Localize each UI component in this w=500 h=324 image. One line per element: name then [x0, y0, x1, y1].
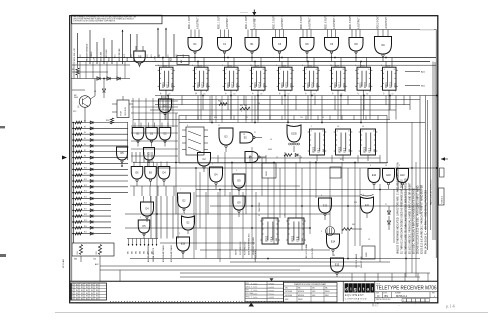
svg-text:5: 5	[143, 198, 144, 200]
svg-text:8B: 8B	[71, 290, 73, 292]
svg-text:NOTE:: NOTE:	[236, 248, 238, 255]
bus wire B-line y57	[77, 57, 436, 59]
svg-text:D664: D664	[312, 291, 316, 293]
arrow left at right border	[441, 157, 448, 160]
nand gate E3 center	[219, 128, 233, 152]
flip-flop R202 lower right	[286, 218, 306, 244]
nand gate E10 upper-right row	[368, 169, 380, 190]
wire vertical x285 long	[284, 152, 286, 218]
nand gate E6 tier3	[145, 162, 157, 187]
svg-text:8B: 8B	[71, 287, 73, 289]
wire top signal ATD LINE	[100, 38, 104, 64]
svg-text:W040: W040	[266, 171, 268, 176]
faint print-through top right	[240, 12, 434, 30]
enclosure internal wire drops	[186, 116, 380, 163]
svg-text:R201 8 OUT: R201 8 OUT	[378, 15, 380, 28]
svg-text:8B: 8B	[76, 293, 78, 295]
svg-text:R201 6 OUT: R201 6 OUT	[301, 16, 303, 29]
wire second left horizontal y72	[72, 71, 108, 73]
wire top signal LTB	[163, 28, 167, 62]
svg-text:JAM: JAM	[348, 148, 351, 152]
svg-text:T. Gallo: T. Gallo	[251, 294, 257, 296]
svg-text:E18: E18	[386, 174, 391, 177]
nand gate E5b horizontal lower	[245, 152, 266, 163]
transistor Q1	[74, 95, 91, 108]
svg-text:11: 11	[254, 132, 256, 134]
svg-text:8B: 8B	[71, 296, 73, 298]
wire top signal B43	[134, 34, 137, 61]
scan mark top center registration arrow	[252, 10, 256, 22]
svg-text:R3: R3	[84, 126, 86, 128]
svg-text:680: 680	[352, 224, 355, 226]
svg-text:13: 13	[169, 93, 171, 95]
svg-text:R13: R13	[84, 185, 87, 187]
svg-text:JAM: JAM	[235, 84, 238, 88]
svg-text:MPS6534: MPS6534	[298, 295, 304, 297]
flip-flop R202 lower left	[260, 218, 280, 244]
svg-text:2: 2	[241, 111, 242, 113]
svg-text:B01 I/O CLEAR: B01 I/O CLEAR	[305, 243, 308, 258]
nand gate C5 top row	[273, 15, 287, 62]
pulse transformer T1	[326, 227, 335, 236]
svg-text:8B: 8B	[91, 287, 93, 289]
flip-flop R201 bit 9	[381, 58, 398, 96]
svg-text:A OUTPUT 1: A OUTPUT 1	[281, 15, 284, 29]
small box A03 above flip-flop row	[177, 56, 189, 65]
label ALL READ BUFFER SERIAL INPUTS	[147, 244, 155, 262]
signature block drn chk eng	[245, 281, 284, 302]
svg-text:9: 9	[263, 91, 264, 93]
svg-text:R201: R201	[199, 65, 203, 67]
svg-text:MULTI: MULTI	[366, 252, 368, 257]
wire drops below flip-flop row bottom area	[132, 152, 256, 259]
svg-text:A02: A02	[95, 263, 98, 266]
svg-text:9: 9	[252, 93, 253, 95]
svg-text:2-6-68: 2-6-68	[270, 297, 275, 299]
ladder right rail wire	[127, 123, 129, 161]
nand gate D2 mid-left row1	[159, 123, 171, 147]
nand gate B1 mid-left row1	[132, 123, 144, 147]
svg-text:750: 750	[300, 117, 303, 119]
transistor area wiring	[72, 79, 96, 123]
svg-text:R201 5 OUT: R201 5 OUT	[274, 16, 276, 29]
ladder rung 2 resistor-diode	[72, 126, 128, 129]
label TELETYPE rotated	[259, 202, 261, 212]
rotated label LO CLOCK	[312, 247, 314, 258]
ladder rung 16 resistor-diode	[72, 208, 111, 211]
flip-flop R202 plan2 bit 1	[308, 129, 327, 161]
svg-text:8B: 8B	[81, 284, 83, 286]
wire vertical x355 long	[354, 163, 356, 247]
nand gate E4	[210, 167, 223, 189]
svg-text:10: 10	[270, 139, 272, 141]
svg-text:IN645: IN645	[325, 295, 329, 297]
svg-text:JAM: JAM	[289, 84, 292, 88]
svg-text:A OUTPUT 1: A OUTPUT 1	[333, 15, 336, 29]
svg-text:l: l	[372, 286, 373, 291]
resistor R20 with diode	[284, 154, 298, 157]
wire top signal B00	[127, 34, 130, 61]
svg-text:B05: B05	[144, 251, 146, 254]
svg-text:9: 9	[179, 233, 180, 235]
svg-text:B04: B04	[140, 251, 142, 254]
svg-text:R201 6 OUT: R201 6 OUT	[326, 16, 328, 29]
svg-text:14: 14	[330, 65, 332, 67]
scan paper bottom edge shadow	[55, 312, 488, 314]
rotated label I O CLEAR	[305, 243, 308, 258]
svg-text:11: 11	[218, 125, 220, 127]
svg-text:MC 50: MC 50	[70, 303, 75, 305]
svg-text:13: 13	[261, 93, 263, 95]
ladder rung 19 resistor-diode	[72, 226, 111, 229]
svg-text:8B: 8B	[86, 293, 88, 295]
svg-text:8B: 8B	[76, 284, 78, 286]
svg-text:R14: R14	[84, 191, 87, 193]
svg-text:D5,D4,E7,E12,E16 & E15 ARE DEC: D5,D4,E7,E12,E16 & E15 ARE DEC 7400N QUA…	[417, 185, 420, 254]
svg-text:g: g	[354, 286, 357, 291]
svg-text:T. Gallo: T. Gallo	[251, 290, 257, 292]
svg-text:E2,E9,E13 & E14 ARE DEC 7440N: E2,E9,E13 & E14 ARE DEC 7440N DUAL 4-INP…	[421, 184, 424, 254]
ladder rung 18 resistor-diode	[72, 220, 111, 223]
svg-text:R201: R201	[387, 65, 391, 67]
svg-text:2: 2	[332, 93, 333, 95]
wire top signal +3V	[94, 42, 97, 64]
svg-text:R23: R23	[354, 202, 357, 204]
nand gate E2 tall	[178, 193, 191, 213]
junction dots on buses	[103, 57, 438, 260]
svg-text:R20: R20	[84, 226, 87, 228]
svg-text:E10: E10	[372, 174, 377, 177]
svg-text:R201 1 OUT: R201 1 OUT	[246, 16, 248, 29]
wire horizontal y214	[125, 213, 330, 215]
svg-text:8B: 8B	[81, 293, 83, 295]
wire top signal B02	[109, 40, 112, 64]
component box small upper	[262, 163, 276, 178]
svg-text:R19: R19	[214, 117, 217, 119]
svg-text:8B: 8B	[86, 284, 88, 286]
label below parts table	[70, 303, 75, 305]
wire top signal A03	[170, 34, 174, 61]
svg-text:R201: R201	[283, 65, 287, 67]
svg-text:14: 14	[385, 165, 387, 167]
svg-text:8B: 8B	[96, 299, 98, 301]
nand gate B1 top row	[245, 15, 259, 62]
scan mark left edge upper	[0, 126, 5, 128]
notice box	[72, 15, 163, 24]
svg-text:R12: R12	[84, 179, 87, 181]
svg-text:8B: 8B	[96, 293, 98, 295]
svg-text:2: 2	[395, 91, 396, 93]
svg-text:A OUTPUT 1: A OUTPUT 1	[226, 15, 229, 29]
svg-text:MOL 302 +3V: MOL 302 +3V	[74, 48, 76, 61]
nand gate D4 lower mid	[141, 196, 154, 222]
svg-text:″: ″	[415, 304, 416, 307]
wire top signal +3V3	[155, 28, 159, 62]
svg-text:E105: E105	[291, 133, 297, 135]
svg-text:D664: D664	[268, 149, 272, 151]
ladder rung 1 resistor-diode	[72, 121, 128, 124]
notes column right side	[397, 162, 428, 254]
svg-text:E Q U I P M E N T: E Q U I P M E N T	[345, 295, 364, 297]
svg-text:R201: R201	[361, 65, 365, 67]
nand gate C6 top row	[325, 15, 339, 62]
labels read buffer input column	[128, 251, 154, 254]
ladder rung 11 resistor-diode	[72, 179, 128, 182]
ladder rung 6 resistor-diode	[72, 150, 128, 153]
svg-text:4: 4	[206, 91, 207, 93]
svg-text:7: 7	[383, 93, 384, 95]
svg-text:8B: 8B	[91, 290, 93, 292]
svg-text:B03: B03	[136, 251, 138, 254]
svg-text:6: 6	[158, 65, 159, 67]
svg-text:PROD.: PROD.	[246, 297, 251, 299]
svg-text:1: 1	[363, 194, 364, 196]
svg-text:R10: R10	[84, 167, 87, 169]
bottom left wires to strip	[100, 266, 120, 281]
svg-text:14: 14	[333, 255, 335, 257]
svg-text:DEC3009B: DEC3009B	[285, 291, 292, 293]
wire stub A01 right of flip-flop row	[405, 71, 426, 74]
flip-flop R201 bit 6	[303, 58, 320, 96]
wire horizontal y119	[133, 119, 390, 121]
svg-text:PRINTED CIRCUIT REV.: PRINTED CIRCUIT REV.	[376, 299, 391, 301]
ladder rung 7 resistor-diode	[72, 156, 128, 159]
svg-text:R22: R22	[340, 159, 343, 161]
svg-text:8B: 8B	[76, 290, 78, 292]
svg-text:8B: 8B	[71, 293, 73, 295]
code tab right border	[440, 168, 445, 177]
ladder rung 20 resistor-diode	[72, 232, 111, 235]
svg-text:8B: 8B	[76, 299, 78, 301]
svg-text:C3: C3	[368, 239, 370, 241]
nand gate C2 mid-left row2	[144, 148, 155, 167]
svg-text:T. Gallo: T. Gallo	[251, 283, 257, 285]
svg-text:A OUTPUT 1: A OUTPUT 1	[358, 15, 361, 29]
wire horizontal y273	[180, 272, 430, 274]
nand gate E14 lower	[327, 234, 340, 256]
wire vertical x420 right	[419, 96, 421, 215]
diode D3 left string	[117, 77, 120, 80]
wire mesh lower section horizontals	[100, 168, 437, 277]
svg-text:9: 9	[355, 65, 356, 67]
svg-text:R17 750: R17 750	[240, 105, 247, 107]
svg-text:1: 1	[276, 65, 277, 67]
svg-text:750: 750	[93, 259, 96, 261]
svg-text:INR STROBE: INR STROBE	[119, 48, 121, 61]
or gate E105 with input bubbles	[287, 125, 301, 152]
svg-text:7: 7	[290, 91, 291, 93]
svg-text:13: 13	[314, 93, 316, 95]
svg-text:1: 1	[236, 170, 237, 172]
DEC digital logo	[343, 281, 375, 302]
svg-text:JAM: JAM	[301, 237, 304, 241]
svg-text:10: 10	[195, 93, 197, 95]
svg-text:RDR RUN: RDR RUN	[125, 107, 127, 116]
svg-text:7: 7	[357, 93, 358, 95]
svg-text:8B: 8B	[81, 296, 83, 298]
svg-text:A03: A03	[180, 60, 183, 63]
nand gate D2 mid-left row1	[146, 123, 158, 147]
svg-text:13: 13	[234, 93, 236, 95]
svg-text:8B: 8B	[81, 290, 83, 292]
svg-text:680: 680	[74, 259, 77, 261]
registration mark above strip	[270, 278, 274, 281]
flip-flop R201 bit 3	[223, 58, 240, 96]
svg-text:R7: R7	[84, 150, 86, 152]
wire stub B01 right of flip-flop row	[405, 86, 426, 88]
svg-text:8B: 8B	[91, 296, 93, 298]
svg-text:d: d	[345, 286, 348, 291]
left band extra verticals	[72, 16, 125, 282]
svg-text:TELETYPE RECEIVER M706: TELETYPE RECEIVER M706	[376, 286, 437, 292]
nand gate D1 top left	[134, 46, 146, 67]
svg-text:R14: R14	[77, 251, 79, 254]
svg-text:8B: 8B	[76, 296, 78, 298]
svg-text:2: 2	[236, 91, 237, 93]
resistor R1 top left	[72, 64, 79, 79]
wire mesh lower section verticals	[196, 122, 416, 277]
svg-text:13: 13	[288, 93, 290, 95]
svg-text:8B: 8B	[96, 284, 98, 286]
svg-text:13: 13	[366, 93, 368, 95]
svg-text:READER ENABLE: READER ENABLE	[86, 43, 89, 61]
nand gate E18 upper-right row	[383, 169, 395, 190]
resistor R18 left mid	[106, 118, 114, 124]
svg-text:MPS6534: MPS6534	[298, 291, 304, 293]
svg-text:8B: 8B	[96, 287, 98, 289]
svg-text:R17: R17	[84, 208, 87, 210]
wire vertical right rail x437	[435, 58, 437, 259]
svg-text:R201: R201	[229, 65, 233, 67]
title strip top rule	[70, 280, 438, 282]
svg-text:2: 2	[140, 217, 141, 219]
extra top band rotated labels	[80, 49, 185, 58]
svg-text:ATD END: ATD END	[105, 49, 108, 58]
svg-text:7: 7	[212, 164, 213, 166]
arrow marker left border	[62, 156, 67, 160]
speckle value labels	[214, 103, 370, 241]
flip-flop R201 bit 5	[277, 58, 294, 96]
nand gate D5 right of ladder	[117, 147, 128, 166]
flip-flop R201 bit 4	[250, 58, 267, 96]
wire horizontal y189	[196, 189, 420, 191]
svg-text:C4: C4	[94, 91, 96, 93]
nand gate D9 top right (large)	[375, 14, 392, 61]
svg-text:8B: 8B	[71, 284, 73, 286]
svg-text:8B: 8B	[81, 287, 83, 289]
svg-text:ALL READ BUFFER: ALL READ BUFFER	[147, 244, 150, 262]
flip-flop R201 bit 8	[355, 58, 372, 96]
svg-text:4: 4	[279, 93, 280, 95]
resistor box R14 R15 bottom left	[72, 243, 114, 266]
svg-text:2-6-68: 2-6-68	[270, 284, 275, 286]
flip-flop R201 bit 2	[193, 58, 210, 96]
svg-text:T. Gallo: T. Gallo	[251, 297, 257, 299]
svg-text:2: 2	[172, 91, 173, 93]
svg-text:DEC: DEC	[312, 288, 315, 290]
svg-text:2-6-68: 2-6-68	[270, 290, 275, 292]
ladder rung 8 resistor-diode	[72, 161, 128, 164]
svg-text:JAM: JAM	[393, 84, 396, 88]
svg-text:B01: B01	[128, 251, 130, 254]
svg-text:1: 1	[316, 91, 317, 93]
svg-text:R201: R201	[256, 65, 260, 67]
svg-text:.01: .01	[258, 103, 260, 105]
svg-text:R9: R9	[84, 161, 86, 163]
connector comb read buffer inputs	[127, 239, 158, 247]
svg-text:3: 3	[399, 165, 400, 167]
label MC50 left margin	[62, 259, 65, 268]
wire top horizontal run to right border	[250, 30, 436, 58]
svg-text:R13: R13	[73, 111, 76, 113]
svg-text:T. Gallo: T. Gallo	[251, 287, 257, 289]
svg-text:5: 5	[284, 215, 285, 217]
drawing border frame	[70, 16, 438, 303]
svg-text:M706-0-1: M706-0-1	[442, 196, 444, 203]
nand gate E13 center-right	[319, 198, 332, 220]
svg-text:9: 9	[321, 231, 322, 233]
enclosure rect plan 2	[179, 116, 387, 164]
diode D11 right pair	[387, 206, 390, 214]
wire top signal MOL 302 +3V	[74, 33, 77, 64]
svg-text:10: 10	[258, 215, 260, 217]
svg-text:ATD LINE: ATD LINE	[100, 51, 103, 61]
svg-text:R201 1 OUT: R201 1 OUT	[219, 16, 221, 29]
svg-text:E10: E10	[400, 174, 405, 177]
svg-text:E14: E14	[331, 240, 336, 243]
wire vertical x157 long	[156, 163, 158, 239]
nand gate D6 top row	[300, 15, 314, 62]
nand gate E9	[233, 174, 245, 195]
ladder rung 13 resistor-diode	[72, 191, 128, 194]
svg-text:7: 7	[180, 189, 181, 191]
ladder rung 9 resistor-diode	[72, 167, 128, 170]
svg-text:ARE FREEWHEELING: ARE FREEWHEELING	[248, 233, 251, 255]
resistor R16	[218, 101, 227, 106]
svg-text:11: 11	[385, 204, 387, 206]
svg-text:8B: 8B	[86, 290, 88, 292]
svg-text:R107: R107	[121, 111, 123, 116]
mid-left extra mesh	[131, 96, 258, 156]
bus wire C-line y61	[77, 61, 430, 63]
svg-text:i: i	[350, 286, 351, 291]
svg-text:1: 1	[311, 126, 312, 128]
wire left horizontal y65	[72, 64, 130, 66]
svg-text:4: 4	[187, 125, 188, 127]
nand gate E10b upper-right row	[397, 169, 409, 190]
svg-text:DEC6534B: DEC6534B	[285, 295, 292, 297]
svg-text:10: 10	[243, 134, 245, 136]
svg-text:R6: R6	[84, 144, 86, 146]
svg-text:14: 14	[344, 91, 346, 93]
or gate E2 xor lower	[182, 216, 195, 234]
svg-text:R201: R201	[309, 65, 313, 67]
wire horizontal y65 under bus	[155, 64, 436, 66]
svg-text:8B: 8B	[86, 299, 88, 301]
svg-text:13: 13	[204, 93, 206, 95]
flip-flop R201 bit 7	[330, 58, 347, 96]
svg-text:R201 1 OUT: R201 1 OUT	[189, 16, 191, 29]
svg-text:JAM: JAM	[342, 84, 345, 88]
nand gate D3	[159, 96, 172, 121]
ladder rung 15 resistor-diode	[72, 202, 111, 205]
wire vertical right rail x433	[432, 62, 434, 241]
svg-text:10: 10	[362, 126, 364, 128]
ladder rung 4 resistor-diode	[72, 138, 128, 141]
svg-text:R18: R18	[106, 120, 109, 122]
svg-text:E5 & E10 ARE DEC 7450N DUAL 2-: E5 & E10 ARE DEC 7450N DUAL 2-WIDE 2-INP…	[409, 182, 412, 254]
svg-text:B00 CLEAR PLAN 1: B00 CLEAR PLAN 1	[162, 245, 165, 262]
